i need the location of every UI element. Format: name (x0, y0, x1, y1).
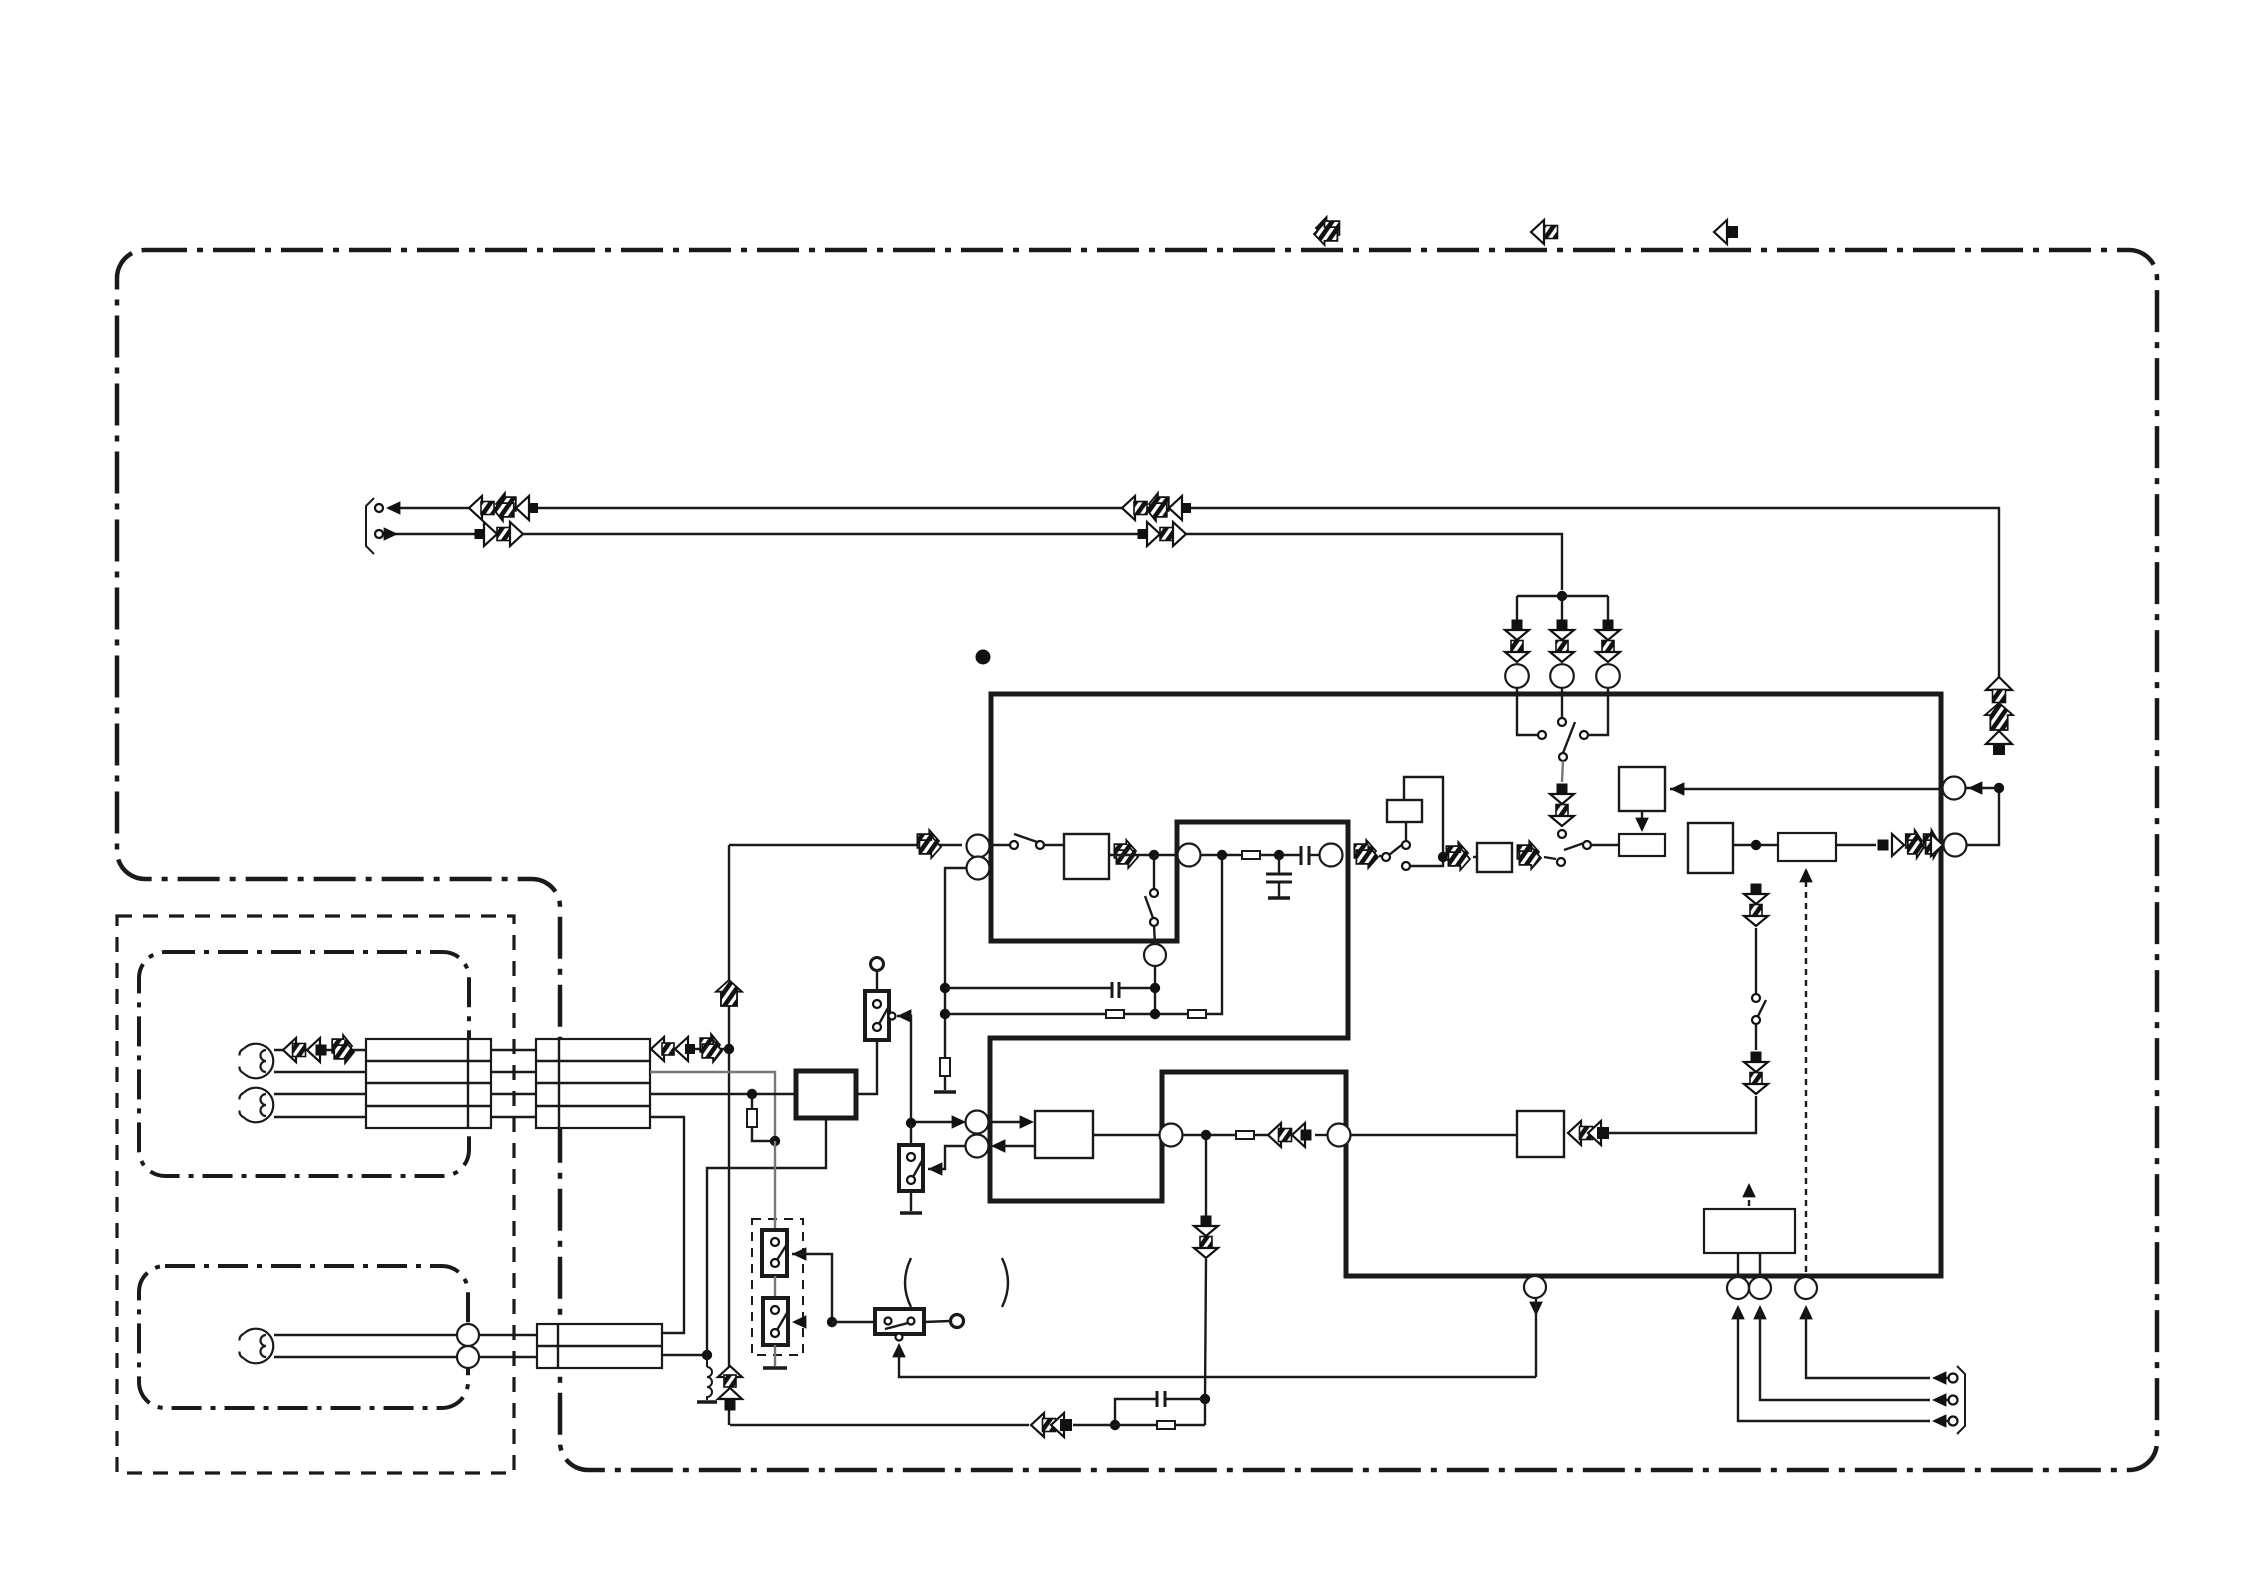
cap C4 (1111, 982, 1114, 998)
arrowhead up ctrl a (1731, 1305, 1745, 1319)
T2 out row2 wire (650, 1072, 775, 1141)
switch box SB5 (875, 1309, 924, 1334)
arrowhead ctrl in b (1932, 1393, 1946, 1407)
power feed branch 2 symbols (1557, 620, 1568, 631)
misc dot upper (976, 650, 991, 665)
arrowhead into SB1 (897, 1009, 911, 1023)
switch box SB2 (899, 1145, 923, 1191)
pin circle notch bottom (1144, 944, 1166, 966)
dashed line level (1805, 870, 1807, 1277)
contact n1 b (1150, 918, 1158, 926)
dashed arrow from B7 (1748, 1186, 1750, 1206)
bracket left of top wires (366, 498, 374, 554)
wire node6 down a (1205, 1135, 1207, 1216)
junction dot node1 (1149, 850, 1159, 860)
arrowhead into SB2 (928, 1162, 942, 1176)
junction dot row3 (747, 1089, 757, 1099)
relay sw common contact (1382, 853, 1390, 861)
block B2 (1477, 843, 1512, 872)
block B1 (1064, 834, 1109, 879)
pin circle F (1328, 1124, 1351, 1147)
wire SB5 to ring (924, 1321, 950, 1322)
junction dot node4 (1751, 840, 1761, 850)
arrowhead top wire 1 (386, 501, 400, 515)
wire into B2 (1473, 856, 1477, 858)
relay box K1 (1387, 800, 1422, 822)
jack J2 wire top (274, 1093, 366, 1095)
resistor R4 (1236, 1131, 1254, 1139)
gray control line (774, 1141, 776, 1230)
switch contact b (1036, 841, 1044, 849)
wire R4 to arrows (1254, 1134, 1271, 1136)
hatched arrow into pin (917, 830, 939, 852)
wire B6 right (1093, 1134, 1160, 1136)
wire feedback to pin (1966, 787, 1999, 789)
ctrl wire a (1738, 1308, 1930, 1421)
contact branch 1 (1538, 731, 1546, 739)
T1-T2 link wires (491, 1049, 536, 1051)
power feed branch 3 symbols (1603, 620, 1614, 631)
arrowhead into fb pin (1968, 781, 1982, 795)
block B3 (1688, 823, 1733, 873)
dash-dot shield box 1 (phono jacks) (139, 952, 469, 1176)
down chain wire a (1755, 928, 1757, 994)
cap C3 (1156, 1391, 1159, 1407)
power feed bus (1517, 595, 1608, 597)
wire switch to block1 (1044, 844, 1064, 846)
arrowhead up into SB5 (892, 1343, 906, 1357)
signal arrows riser right (1986, 677, 2012, 690)
junction dot RC bottom (1110, 1420, 1120, 1430)
junction dot after relay (1438, 852, 1448, 862)
wire fb b2 (1206, 855, 1222, 1014)
resistor R5 (1157, 1421, 1175, 1429)
transformer T2 (536, 1039, 650, 1128)
arrowhead into SB3 (792, 1247, 806, 1261)
wire node5 to pin arrows (911, 1121, 958, 1123)
junction dot feedback (1994, 783, 2004, 793)
SPDT2 arm (1564, 843, 1584, 850)
wire SB3 right (792, 1254, 832, 1322)
connector arrow on top border 1 (1316, 217, 1339, 239)
hatched arrow up riser (716, 980, 742, 1006)
wire pin down (1154, 966, 1156, 1014)
switch arm main (1014, 834, 1040, 843)
selector switch arm top (1563, 722, 1575, 753)
dashed enclosure box (input section) (117, 916, 514, 1473)
relay bypass loop (1404, 777, 1443, 857)
pin circle out of notch (1320, 844, 1343, 867)
ground bar L1 (697, 1400, 717, 1404)
junction dot node5 (906, 1118, 916, 1128)
signal arrows lower chain (1268, 1123, 1281, 1147)
block B6 (1035, 1111, 1093, 1158)
hatched arrow after B1 (1114, 840, 1136, 862)
junction dot T3 out (702, 1350, 712, 1360)
jack J1 wire top (274, 1049, 366, 1051)
arrow fb box to R2 (1641, 811, 1643, 828)
pin circle on notch edge (1178, 844, 1201, 867)
junction dot on gray line (770, 1136, 780, 1146)
SB1 side contact (889, 1013, 896, 1020)
pin wire below branch 2 (1561, 688, 1563, 717)
arrowhead ctrl in c (1932, 1371, 1946, 1385)
wire R5 ends (1115, 1424, 1157, 1426)
arrowhead down ctrl (1529, 1302, 1543, 1316)
signal arrows top wire2 mid (1138, 529, 1148, 539)
big parenthesis right (1002, 1258, 1008, 1307)
arrowhead top wire 2 (384, 527, 398, 541)
SB4 contacts (771, 1306, 779, 1314)
wire node1 to pin2 (1154, 854, 1180, 856)
junction dot riser (724, 1044, 734, 1054)
wire SB5 control (899, 1346, 1536, 1377)
signal arrows top wire2 left (475, 529, 485, 539)
gray line SB3-SB4 (774, 1276, 776, 1298)
junction dot RC top (1200, 1394, 1210, 1404)
capacitor C1 to ground (1278, 855, 1280, 874)
sys block B7 (1704, 1209, 1795, 1253)
wire rec to SB5 (832, 1321, 875, 1323)
wire pinC to B6 (989, 1121, 1026, 1123)
junction dot fb a (940, 983, 950, 993)
resistor R7 (1106, 1010, 1124, 1018)
connector arrow on top border 3 (1714, 220, 1727, 244)
wire SB1 to node5 (897, 1016, 911, 1118)
power feed branch 1 wire (1516, 596, 1518, 624)
signal arrows top wire1 mid (1122, 496, 1135, 520)
relay sw arm (1389, 843, 1404, 855)
transformer T1 (366, 1039, 491, 1128)
phono jack J1 (244, 1044, 273, 1079)
T2 out row3 wire (650, 1093, 796, 1095)
J3 wires to T3 (479, 1334, 537, 1336)
wire RC to left arrows (1073, 1424, 1115, 1426)
T2 out row4 wire (650, 1117, 684, 1333)
junction dot node2 (1217, 850, 1227, 860)
junction dot pin a (1150, 983, 1160, 993)
wire into SB2 loop (928, 1146, 966, 1169)
inner feedback line (1670, 788, 1943, 790)
terminal ring top (871, 958, 884, 971)
hatched arrow after relay (1446, 842, 1468, 864)
resistor R6 vertical (751, 1094, 753, 1109)
wire R1 to node3 (1260, 854, 1301, 856)
feedback box B4 (1619, 767, 1665, 811)
dash-dot shield box 2 (line jack) (139, 1266, 468, 1408)
line jack J3 (244, 1329, 273, 1364)
wire top bus 1 (392, 508, 1999, 677)
pin wire below branch 1 (1517, 688, 1537, 735)
pin circle D (966, 1135, 989, 1158)
contact above SPDT2 (1558, 830, 1566, 838)
power feed branch 1 symbols (1512, 620, 1523, 631)
switch arm n1 (1145, 896, 1153, 918)
signal arrows jack J1 (283, 1038, 296, 1062)
wire B6 to pinD (1001, 1145, 1035, 1147)
resistor box R2 (1619, 834, 1665, 856)
resistor R8 (1188, 1010, 1206, 1018)
arrowhead up ctrl b (1753, 1305, 1767, 1319)
arrowhead into B6 (1020, 1115, 1034, 1129)
ctrl wire c (1806, 1308, 1930, 1378)
pin circle C (966, 1111, 989, 1134)
wire ctrl left (1535, 1298, 1537, 1377)
wire to relay switch (1379, 855, 1381, 857)
wire top bus 2 (392, 534, 1562, 590)
switch contact a (1010, 841, 1018, 849)
wire pinD feedback (945, 868, 966, 1058)
big parenthesis left (905, 1258, 911, 1307)
shield pin circle J3 top (457, 1324, 479, 1346)
dashed arrowhead level (1799, 868, 1813, 882)
wire from transformer riser to pins (729, 844, 962, 846)
down chain switch arm (1757, 1000, 1766, 1018)
riser up from T3 area (707, 1118, 826, 1355)
feedback pin circle (1943, 777, 1966, 800)
phono jack J2 (244, 1088, 273, 1123)
SB1 contacts (873, 1000, 881, 1008)
wire ring to SB1 (876, 971, 878, 991)
wire throw1 to relay box (1405, 822, 1407, 841)
SB5 arm (885, 1323, 908, 1329)
wire node1 down (1153, 855, 1155, 889)
resistor R1 (1242, 851, 1260, 859)
SB5 contacts (885, 1318, 892, 1325)
wire arrows to riser (730, 1424, 1029, 1426)
junction dot pin b (1150, 1009, 1160, 1019)
input pin circle B (967, 857, 990, 880)
block B5 (1517, 1111, 1564, 1157)
down chain wire b (1755, 1024, 1757, 1050)
wire below selector switch (1562, 761, 1563, 782)
SB2 contacts (907, 1153, 915, 1161)
riser wire x729 (728, 845, 730, 1425)
outer chassis dash-dot border (117, 250, 2157, 1470)
terminal ring rec out (951, 1315, 964, 1328)
pin circle branch 1 (1505, 664, 1529, 688)
jack J3 wire bottom (274, 1356, 457, 1358)
arrowhead ctrl in a (1932, 1414, 1946, 1428)
wire to node6 (1182, 1134, 1236, 1136)
wire to SPDT2 (1544, 857, 1556, 859)
arrowhead into pin C (952, 1115, 966, 1129)
ctrl wire b (1760, 1308, 1930, 1400)
signal arrows output (1878, 840, 1889, 851)
jack J3 wire top (274, 1334, 457, 1336)
down chain wire c (1607, 1096, 1756, 1133)
wire throw2 loop (1410, 857, 1443, 866)
signal arrows RC (1031, 1413, 1044, 1437)
SB3 arm (777, 1244, 787, 1260)
wire arrows to pinF (1315, 1134, 1328, 1136)
contact branch 2 bottom (1559, 753, 1567, 761)
wire R9 ground (944, 1076, 946, 1090)
wire out pin loop up (1966, 788, 1999, 845)
jack J2 wire bottom (274, 1116, 366, 1118)
contact branch 2 top (1558, 718, 1566, 726)
ground bar R9 (934, 1090, 956, 1094)
power feed branch 2 wire (1561, 596, 1563, 624)
pin circle ctrl a (1727, 1277, 1749, 1299)
level box R3 (1778, 833, 1836, 861)
signal arrows top wire1 left (469, 496, 482, 520)
output pin circle (1944, 834, 1967, 857)
arrowhead into fb box (1670, 782, 1684, 796)
wire B3 to node4 (1733, 844, 1778, 846)
wire B1 to node (1109, 854, 1154, 856)
signal arrows T2 row1 (651, 1037, 664, 1061)
dashed unit box (752, 1219, 803, 1355)
selector down-stack symbols (1557, 784, 1568, 795)
arrowhead into SB4 (792, 1315, 806, 1329)
wire SPDT2 to R2 (1591, 844, 1619, 846)
headphone amp block thick A1 (796, 1071, 856, 1118)
down chain contact a (1752, 994, 1760, 1002)
wire fb b (945, 1013, 1106, 1015)
jack J1 wire bottom (274, 1071, 366, 1073)
wire node5 down (910, 1123, 912, 1145)
main IC block outline U1 (990, 694, 1941, 1276)
pin circle ctrl b (1749, 1277, 1771, 1299)
down chain contact b (1752, 1016, 1760, 1024)
SB4 arm (777, 1313, 787, 1330)
junction dot node3 (1274, 850, 1284, 860)
down chain symbols 2 (1751, 1052, 1762, 1063)
relay sw throw1 (1402, 841, 1410, 849)
ctrl terminal b (1949, 1396, 1958, 1405)
terminal circle top wire 1 (375, 504, 383, 512)
SPDT2 common (1583, 841, 1591, 849)
pin wire below branch 3 (1589, 688, 1608, 735)
wire node6 down b (1205, 1259, 1206, 1399)
ctrl terminal a (1949, 1417, 1958, 1426)
T3 out wire (662, 1354, 707, 1356)
junction dot node6 (1201, 1130, 1211, 1140)
switch box SB3 (762, 1230, 787, 1276)
SPDT2 throw low (1557, 858, 1565, 866)
contact branch 3 (1580, 731, 1588, 739)
junction dot rec (827, 1317, 837, 1327)
ground bar SB4 (763, 1366, 787, 1370)
wire to node2 (1200, 854, 1242, 856)
bracket ctrl (1957, 1366, 1965, 1434)
arrowhead out of B6 (991, 1139, 1005, 1153)
pin circle branch 2 (1550, 664, 1574, 688)
wire cap right (1165, 1398, 1205, 1400)
ground bar SB2 (900, 1211, 922, 1215)
power feed branch 3 wire (1607, 596, 1609, 624)
input pin circle A (967, 835, 990, 858)
capacitor C2 series (1300, 846, 1303, 865)
wire SB1 down to amp (856, 1040, 877, 1094)
wire n1 to pin (1154, 926, 1155, 944)
pin circle branch 3 (1596, 664, 1620, 688)
hatched arrow after B2 (1517, 841, 1539, 863)
pin circle ctrl left (1524, 1276, 1546, 1298)
junction dot power feed (1557, 591, 1567, 601)
relay sw throw2 (1402, 862, 1410, 870)
hatched arrow after notch (1354, 840, 1376, 862)
switch box SB1 (865, 991, 889, 1040)
SB3 contacts (771, 1238, 779, 1246)
up stack on riser low (718, 1366, 742, 1377)
SB1 arm (879, 1006, 889, 1024)
transformer T3 (537, 1324, 662, 1368)
terminal circle top wire 2 (375, 530, 383, 538)
switch box SB4 (763, 1298, 788, 1345)
T2 out row1 wire (650, 1048, 724, 1050)
ctrl terminal c (1949, 1374, 1958, 1383)
down chain from node4 symbols (1751, 884, 1762, 895)
resistor R9 vertical (940, 1058, 950, 1076)
wire SB2 to ground (910, 1191, 912, 1211)
down stack node6 (1201, 1216, 1212, 1227)
arrowhead up ctrl c (1799, 1305, 1813, 1319)
wire fb a (945, 987, 1112, 989)
contact n1 a (1150, 889, 1158, 897)
SB2 arm (913, 1159, 923, 1177)
wire pinA to switch (990, 844, 1010, 846)
B7 pin wires (1737, 1253, 1739, 1277)
shield pin circle J3 bottom (457, 1346, 479, 1368)
gray line SB4 ground (774, 1345, 776, 1366)
junction dot fb b (940, 1009, 950, 1019)
wire cap left (1115, 1399, 1157, 1425)
pin circle E (1160, 1124, 1183, 1147)
wire R3 to out arrows (1836, 844, 1876, 846)
pin circle ctrl c (1795, 1277, 1817, 1299)
wire pinF to B5 (1350, 1134, 1517, 1136)
connector arrow on top border 2 (1531, 220, 1544, 244)
arrows into B5 (1568, 1121, 1581, 1145)
inductor L1 (707, 1355, 712, 1400)
SB5 bottom contact (896, 1334, 903, 1341)
